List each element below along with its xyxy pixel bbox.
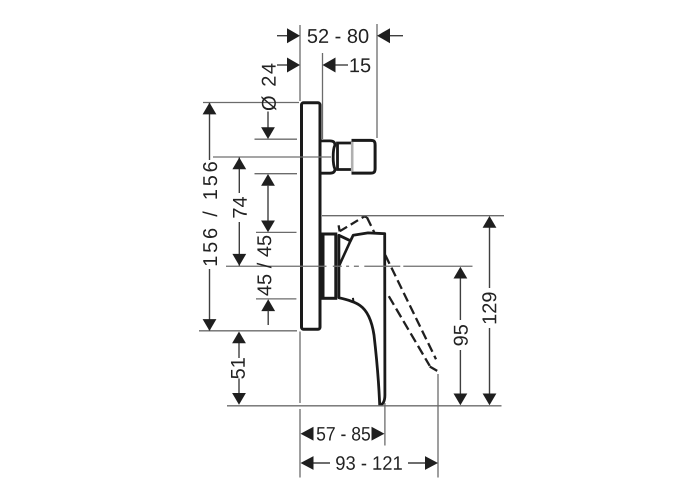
ext line knob bottom y173.7: [255, 173, 298, 175]
ext line knob top y139.2: [255, 138, 298, 140]
dimension 45/45: [254, 206, 276, 325]
dashed lever left edge: [389, 296, 430, 366]
ext line below x300: [299, 332, 301, 404]
ext line plate bottom y330.8: [199, 330, 297, 332]
extension lines: [199, 24, 504, 478]
dimension 57-85: [301, 423, 385, 445]
svg-text:156 / 156: 156 / 156: [200, 161, 222, 267]
shut-off knob cylinder: [338, 143, 353, 170]
dimension 52-80: [277, 26, 403, 48]
dimension 74: [230, 158, 252, 266]
ext line below x438: [437, 374, 439, 478]
ext line plate top y102.5: [203, 102, 299, 104]
svg-text:129: 129: [479, 292, 501, 325]
ext line knob cap x377: [376, 24, 378, 138]
lever centerline: [226, 265, 473, 267]
ext line below x384.9: [384, 403, 386, 446]
svg-text:93 - 121: 93 - 121: [335, 453, 403, 475]
shut-off knob bell: [322, 141, 335, 173]
ext line hub bottom y298.9: [256, 298, 296, 300]
wall plate: [302, 103, 321, 329]
dashed lever bottom cap: [430, 367, 438, 371]
ext line dashed lever top y215.7: [322, 215, 504, 217]
dimension 93-121: [301, 453, 439, 475]
dimension 95: [451, 267, 473, 406]
svg-text:45 / 45: 45 / 45: [254, 235, 276, 296]
ext line plate front x300: [299, 25, 301, 101]
svg-text:57 - 85: 57 - 85: [316, 423, 371, 445]
dashed lever right edge: [367, 217, 436, 359]
ext line hub top y232.4: [256, 231, 297, 233]
ext line plate back x322.5: [322, 53, 324, 139]
svg-text:74: 74: [230, 196, 252, 218]
dimension 51: [228, 332, 250, 405]
valve hub: [323, 234, 336, 298]
svg-text:95: 95: [451, 324, 473, 346]
lever swoop tick: [352, 298, 355, 302]
dashed lever apex cap: [364, 215, 367, 218]
dimension 129: [479, 216, 501, 405]
knob cap seam: [351, 142, 354, 172]
dashed lever alternate position: left short edge: [339, 216, 438, 371]
dashed lever upper-left edge: [340, 216, 365, 231]
dimension 156/156: [200, 103, 222, 331]
lever neck interior diagonal: [339, 241, 350, 265]
dimension 15: [277, 55, 371, 77]
knob centerline: [213, 156, 331, 158]
dimension diameter 24: [259, 63, 281, 206]
svg-text:15: 15: [349, 55, 371, 77]
svg-text:Ø 24: Ø 24: [259, 63, 281, 111]
svg-text:51: 51: [228, 357, 250, 379]
shut-off knob cap: [352, 140, 376, 173]
lever handle body: [339, 233, 385, 405]
svg-text:52 - 80: 52 - 80: [307, 26, 369, 48]
baseline ground y405.8: [227, 405, 502, 407]
